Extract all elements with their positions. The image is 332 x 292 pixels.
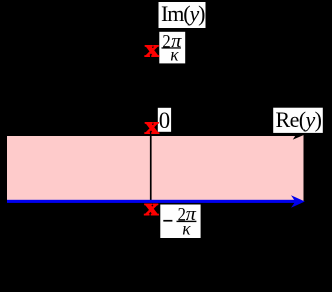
fraction bar bbox=[162, 47, 181, 48]
minus sign bbox=[163, 220, 172, 222]
Im axis segment (vertical line from 0 down through strip) bbox=[150, 134, 152, 206]
svg-text:x: x bbox=[144, 194, 158, 221]
svg-text:Re(y): Re(y) bbox=[276, 107, 323, 132]
label box 2pi/kappa bbox=[159, 32, 185, 64]
svg-text:κ: κ bbox=[170, 45, 179, 65]
svg-text:x: x bbox=[145, 112, 159, 139]
svg-text:x: x bbox=[145, 36, 159, 63]
label box -2pi/kappa bbox=[160, 205, 200, 239]
Re axis arrowhead bbox=[292, 129, 304, 140]
fraction bar bbox=[177, 221, 197, 222]
svg-text:Im(y): Im(y) bbox=[161, 1, 206, 26]
svg-text:0: 0 bbox=[159, 108, 170, 133]
line Im y = -2pi/kappa (blue bottom boundary) bbox=[7, 200, 297, 203]
Re axis line (top edge of strip) bbox=[7, 133, 297, 136]
label box Re(y) bbox=[273, 108, 323, 133]
strip region (shaded band between Im y = 0 and Im y = -2pi/kappa) bbox=[7, 135, 304, 202]
label box Im(y) bbox=[159, 2, 206, 28]
blue line arrowhead bbox=[291, 195, 305, 208]
label box 0 bbox=[158, 108, 171, 132]
svg-text:κ: κ bbox=[182, 219, 191, 239]
